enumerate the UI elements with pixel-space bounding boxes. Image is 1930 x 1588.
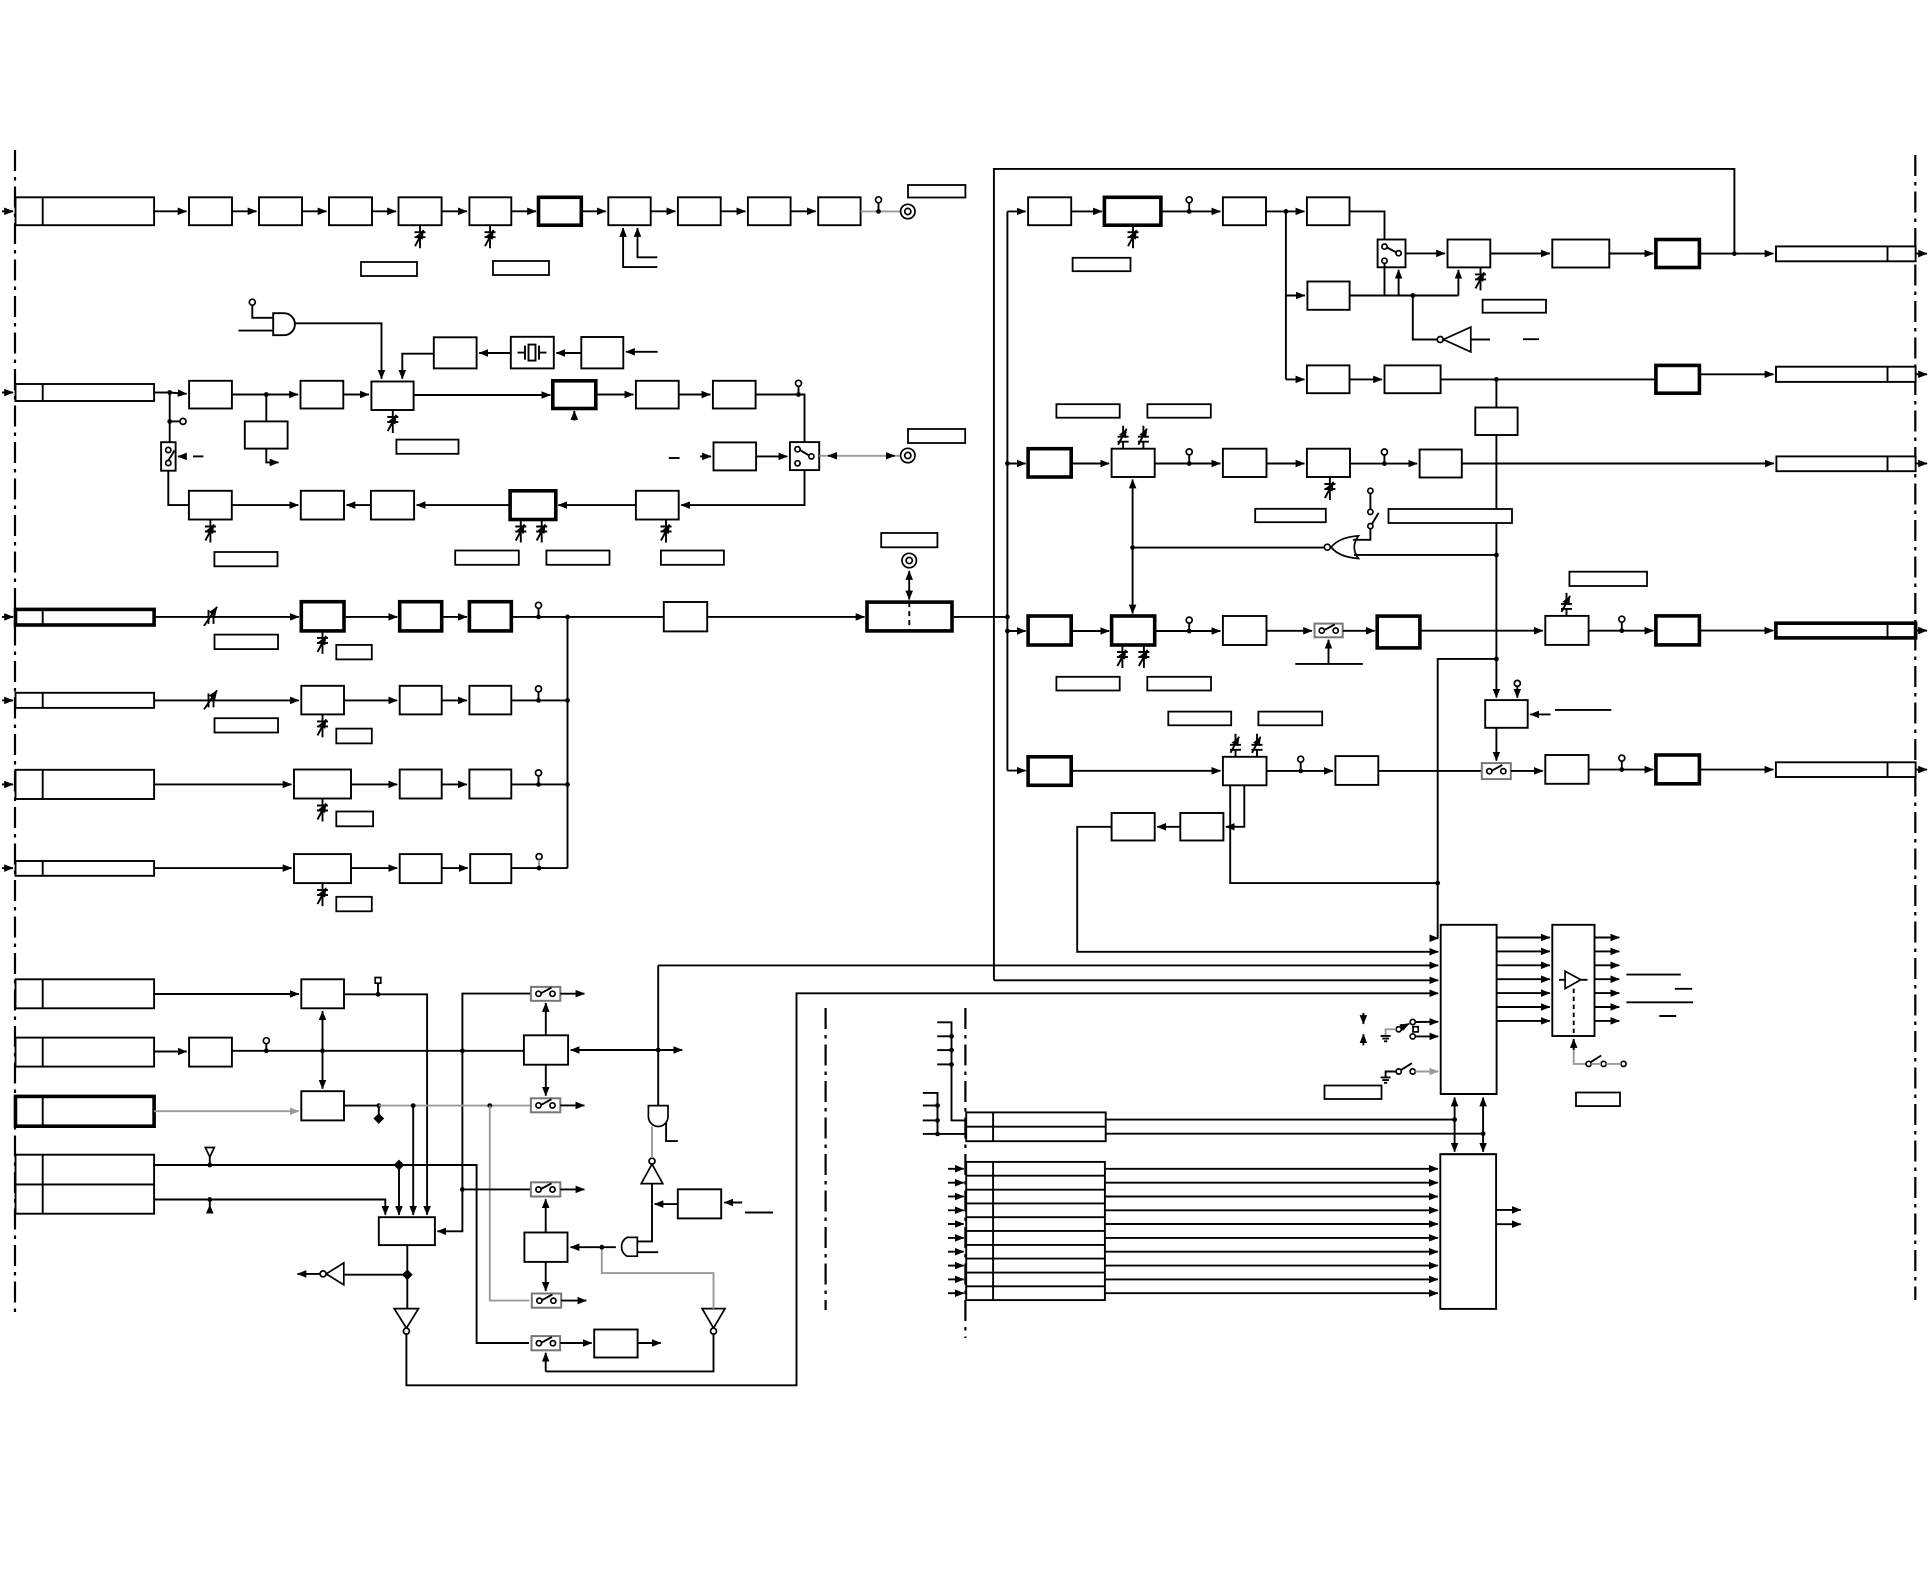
block A1: [301, 979, 344, 1008]
gray vertical to S4: [490, 1106, 530, 1301]
wire: [154, 867, 291, 869]
block r2b-4: [1307, 449, 1350, 477]
input arrow row1: [2, 210, 13, 212]
block fb-4: [510, 491, 556, 520]
key matrix connector 10 rows: [966, 1162, 1105, 1300]
long label: [1389, 509, 1513, 523]
switch SW1: [1378, 240, 1406, 268]
wire: [344, 1105, 379, 1107]
output connector circle: [901, 204, 915, 218]
block r3-1: [1028, 616, 1071, 645]
block row1-2: [189, 197, 232, 225]
trimmer cap below fb-1: [205, 520, 216, 543]
block r1-lower: [1307, 282, 1349, 310]
block r1-7: [1656, 240, 1700, 268]
mute to SW-R4: [1495, 728, 1497, 761]
bus to micon: [994, 979, 1438, 981]
label: [1325, 1086, 1382, 1100]
wire: [154, 993, 299, 995]
block r2b-2: [1112, 449, 1155, 477]
collector junction: [565, 615, 570, 620]
SPDT switch A: [1396, 1027, 1401, 1032]
block r1-6: [1552, 240, 1609, 268]
collector vertical: [567, 617, 569, 868]
wire: [154, 392, 170, 394]
stub arrow up into row1-8 left: [623, 228, 657, 267]
connector CR3: [1776, 456, 1915, 471]
block row5-2: [400, 770, 442, 799]
B1 to S1 arrow: [545, 1003, 547, 1035]
wire: [1350, 378, 1383, 380]
block r4-4: [1545, 755, 1588, 784]
connector J4: [16, 693, 155, 708]
wire: [372, 210, 396, 212]
feedback bus big loop: [994, 169, 1735, 980]
block r3-5: [1545, 616, 1588, 645]
right fold border: [1914, 155, 1916, 1300]
wire: [344, 616, 397, 618]
trimmer below r1-5: [1475, 267, 1486, 290]
out wire: [1350, 295, 1459, 297]
block r3-6: [1656, 616, 1700, 645]
wire to corner: [344, 994, 427, 1215]
main block label: [881, 533, 937, 547]
wire: [1071, 770, 1220, 772]
wire: [351, 783, 397, 785]
driver mode switch: [1573, 1039, 1575, 1050]
block r1-5: [1448, 240, 1491, 268]
test point: [1186, 197, 1192, 203]
adjust marks: [1362, 1013, 1364, 1024]
test point: [1186, 449, 1192, 455]
wire to switch: [756, 395, 805, 443]
SW1 c3 stem: [1384, 263, 1386, 295]
trimmer below: [1324, 477, 1335, 500]
block row3-2: [400, 602, 442, 631]
wire to collector: [511, 867, 567, 869]
wire: [511, 699, 567, 701]
wire: [1609, 253, 1653, 255]
trimmer above: [1561, 593, 1572, 616]
inverter INV2 out to left: [344, 1274, 408, 1276]
wire: [556, 352, 581, 354]
block row1-6: [469, 197, 511, 225]
block row5-1: [294, 770, 351, 799]
AND gate G1: [273, 313, 295, 335]
test point circle: [796, 380, 802, 386]
trimmers below: [1117, 645, 1128, 668]
wire: [347, 504, 371, 506]
junction: [264, 392, 269, 397]
main block jack: [902, 553, 916, 567]
switch S1: [531, 987, 560, 1001]
wire: [343, 394, 369, 396]
wire: [1378, 770, 1482, 772]
block r4-1: [1028, 757, 1071, 786]
wire from circle to AND input: [252, 305, 273, 318]
block row3-3: [469, 602, 511, 631]
switch control arrow: [178, 455, 186, 457]
wire: [1267, 630, 1313, 632]
wire to connector: [1699, 769, 1773, 771]
tap vertical to switch: [169, 393, 171, 443]
control circle: [249, 299, 255, 305]
NOR input top from switch: [1353, 529, 1370, 540]
test point: [536, 602, 542, 608]
block B4: [594, 1330, 637, 1358]
block L1: [1180, 813, 1223, 841]
micon to driver wires: [1497, 937, 1550, 939]
wire: [511, 783, 567, 785]
block row1-5: [399, 197, 442, 225]
input arrow row6: [2, 867, 13, 869]
block row2-sub: [245, 421, 288, 448]
stub diamond: [378, 1106, 380, 1116]
inverter INV1 up: [651, 1184, 653, 1205]
arrow into mon-amp: [700, 455, 711, 457]
connector JB: [16, 1038, 155, 1067]
wire: [442, 616, 467, 618]
wire switch leg down to fb-1: [168, 471, 189, 505]
block row5-3: [469, 770, 511, 799]
B2 to S3 arrow: [545, 1199, 547, 1232]
wire: [1155, 463, 1221, 465]
wire to switch: [1350, 211, 1385, 243]
label top right: [908, 185, 965, 198]
wire mon-amp to switch: [756, 455, 787, 457]
A2 inputs: [637, 1204, 652, 1241]
SW1 out: [1406, 252, 1446, 254]
wire: [558, 504, 636, 506]
wire: [351, 867, 397, 869]
block fb-3: [371, 491, 414, 520]
block r1-2 wide: [1104, 197, 1161, 225]
connector J1: [16, 197, 155, 225]
wire: [1155, 630, 1221, 632]
block r3-2: [1112, 616, 1155, 645]
connector J2: [16, 384, 155, 401]
wire with series trimmer: [154, 699, 299, 701]
connector J3: [16, 609, 155, 625]
wire: [1267, 770, 1333, 772]
stub arrow up into row1-8 right: [638, 228, 658, 257]
switch SW-R3: [1315, 624, 1343, 638]
trimmer cap below row1-6: [485, 225, 496, 248]
inverter INV3 down: [394, 1309, 418, 1329]
throw wires: [1415, 1021, 1438, 1023]
block B-amp: [189, 1038, 232, 1067]
wires to micon link: [1106, 1119, 1455, 1121]
connector JE: [16, 1185, 155, 1214]
wire: [344, 699, 397, 701]
trimmer cap below row1-5: [415, 225, 426, 248]
arrow-up symbol: [209, 1200, 211, 1207]
arrow up into r1-5: [1457, 270, 1459, 296]
row D wire: [154, 1165, 529, 1343]
block row4-1: [301, 686, 344, 715]
block row3-1: [301, 602, 344, 631]
monitor connector circle: [901, 448, 915, 462]
block B3: [678, 1189, 721, 1218]
node to B3: [655, 1203, 678, 1205]
block row1-3: [259, 197, 302, 225]
B1 right input: [571, 1049, 659, 1051]
block r3-4: [1377, 616, 1420, 648]
labels: [1056, 404, 1119, 418]
label: [908, 429, 965, 443]
switch SW-R4: [1482, 763, 1511, 779]
wire to B1: [232, 1050, 524, 1052]
block row1-7: [539, 197, 582, 225]
main block: [867, 602, 952, 631]
wire: [651, 210, 676, 212]
connector J2 divider: [42, 384, 44, 401]
block row1-11: [818, 197, 860, 225]
arrow up into SW1: [1398, 270, 1400, 296]
wire: [1266, 210, 1304, 212]
crystal X1: [511, 337, 554, 369]
block reg: [1475, 408, 1517, 436]
crystal input stub: [626, 351, 658, 353]
wire: [417, 504, 511, 506]
switch SW-L2: [790, 442, 819, 470]
vertical switch: [1368, 488, 1373, 493]
switch S4: [532, 1294, 561, 1308]
key row input arrows: [948, 1168, 964, 1170]
connector J1 divider: [42, 197, 44, 225]
label: [215, 635, 279, 650]
labels: [455, 551, 519, 565]
label: [361, 262, 417, 276]
S5 control from BUF2: [545, 1353, 547, 1372]
block r4-5: [1656, 755, 1700, 784]
block osc-1: [581, 337, 623, 368]
wire: [154, 1051, 187, 1053]
B2 to S4 arrow: [545, 1262, 547, 1291]
block fb-1: [189, 491, 232, 520]
driver outputs: [1595, 937, 1620, 939]
switch S5: [532, 1336, 561, 1350]
NOR output wire: [1133, 547, 1325, 549]
block r3-3: [1223, 616, 1267, 645]
block row2-1: [189, 381, 232, 409]
inner distribution vertical: [1006, 211, 1008, 770]
wire: [442, 867, 468, 869]
block fb-5: [636, 491, 679, 520]
key controller block: [1440, 1154, 1496, 1309]
block row2-4: [553, 381, 596, 409]
test triangle symbol: [209, 1157, 211, 1165]
wire: [442, 699, 467, 701]
long wire A1 top to micon: [658, 964, 1438, 966]
connector JC: [16, 1096, 155, 1126]
loop wire to system micon: [406, 993, 1438, 1385]
controller outputs: [1496, 1209, 1521, 1211]
gray link AND A1 to INV1: [651, 1127, 653, 1159]
labels: [1056, 677, 1119, 691]
bold bottom edge: [1441, 1093, 1497, 1095]
wire: [511, 210, 536, 212]
block mute: [1485, 700, 1528, 728]
connector CR4: [1776, 623, 1916, 638]
wire VCO out: [414, 394, 551, 396]
branch vertical: [1285, 211, 1287, 379]
out: [1511, 770, 1543, 772]
block r2-3: [1656, 365, 1700, 393]
connector CR1: [1776, 246, 1916, 261]
trimmer below: [317, 631, 328, 654]
dash label: [669, 457, 680, 459]
switch S2: [531, 1098, 560, 1112]
wire: [154, 783, 291, 785]
block row6-2: [400, 854, 442, 883]
block L2: [1112, 813, 1155, 841]
wire: [791, 210, 816, 212]
wire to connector: [1699, 253, 1773, 255]
dual row connector: [966, 1112, 1105, 1141]
double arrow jack-block: [908, 571, 910, 578]
block r1-1: [1028, 197, 1071, 225]
wire to connector: [1462, 463, 1774, 465]
label: [1576, 1093, 1620, 1107]
SPST switch B: [1396, 1069, 1401, 1074]
dash label: [193, 455, 203, 457]
AND gate A2: [622, 1237, 638, 1256]
matrix output down: [406, 1245, 408, 1309]
center fold line 1: [824, 1008, 826, 1310]
junction: [796, 392, 801, 397]
connector CR5: [1776, 762, 1916, 777]
junction: [876, 209, 881, 214]
wire out left and down to micon: [1077, 827, 1438, 952]
wire with series trimmer: [154, 616, 299, 618]
buffer symbol inside: [1559, 979, 1565, 981]
wire into main block: [707, 616, 864, 618]
label: [661, 551, 724, 565]
tap circle: [167, 419, 172, 424]
wire to test point: [861, 210, 901, 212]
bidirectional link A1-C1: [322, 1011, 324, 1089]
wire: [1589, 769, 1654, 771]
label: [214, 552, 277, 566]
block row4-2: [400, 686, 442, 715]
branch from r4-2 down: [1226, 785, 1244, 827]
A1 input vertical from top: [657, 965, 659, 1105]
switch SW-L1: [161, 442, 176, 471]
block row2-3 VCO: [371, 382, 413, 411]
wire: [1157, 826, 1180, 828]
block row4-3: [469, 686, 511, 715]
junction: [167, 390, 172, 395]
out: [1343, 630, 1375, 632]
right input: [1530, 713, 1550, 715]
trimmers above: [1230, 734, 1241, 757]
AND gate input 2: [239, 330, 274, 332]
input arrow row5: [2, 783, 13, 785]
trimmer below: [1128, 225, 1139, 248]
gray label: [1073, 258, 1131, 271]
dash label: [1523, 338, 1539, 340]
inverter INV-top feed: [1413, 296, 1437, 340]
block row1-4: [329, 197, 372, 225]
connector JA: [16, 979, 155, 1008]
gray distribution: [379, 1105, 531, 1107]
input arrow row3: [2, 616, 13, 618]
gray wire: [154, 1110, 299, 1112]
block fb-2: [301, 491, 344, 520]
block row1-8: [608, 197, 650, 225]
block mon-amp: [714, 442, 757, 470]
wire to connector: [1699, 373, 1773, 375]
wire: [596, 394, 634, 396]
wire: [442, 210, 467, 212]
block r2-2 wide: [1385, 365, 1441, 393]
micon-controller links: [1454, 1098, 1456, 1120]
wire: [154, 210, 186, 212]
wire: [679, 394, 711, 396]
wire: [1071, 463, 1109, 465]
matrix block: [379, 1217, 435, 1245]
wire: [1490, 253, 1550, 255]
block r4-3: [1335, 756, 1378, 785]
connector J5: [16, 770, 155, 799]
G1 output wire down into VCO: [295, 323, 382, 378]
signal name dashes: [1626, 974, 1680, 976]
wire: [479, 352, 511, 354]
row E wire: [154, 1200, 385, 1215]
control underline + arrow: [1295, 663, 1363, 665]
B1 to S2 arrow: [545, 1065, 547, 1096]
wire: [302, 210, 327, 212]
connector CR2: [1776, 367, 1916, 382]
wire: [1007, 210, 1025, 212]
wire from SW-L2 down: [681, 470, 804, 505]
A1 side input hook: [666, 1123, 678, 1141]
block r1-3: [1223, 197, 1266, 225]
block osc-2: [434, 337, 477, 368]
matrix feed from D: [398, 1165, 400, 1215]
wire: [1589, 630, 1654, 632]
wire: [1350, 463, 1417, 465]
block r2b-5: [1420, 450, 1462, 478]
block row6-1: [294, 854, 351, 883]
S3 feed wire: [462, 1188, 531, 1190]
out arrow: [1916, 253, 1927, 255]
wire: [511, 616, 664, 618]
wire: [232, 210, 257, 212]
key rows to controller: [1105, 1168, 1438, 1170]
block r2b-1: [1028, 449, 1071, 477]
block r4-2: [1223, 757, 1267, 786]
pin square: [375, 978, 381, 984]
wire: [1071, 630, 1109, 632]
block row2-6: [713, 381, 756, 409]
wire fb-1 to fb-2: [232, 504, 298, 506]
labels: [1168, 712, 1231, 726]
wire: [1071, 210, 1102, 212]
stub arrow up into row2-4: [573, 411, 575, 421]
input arrow row2: [2, 392, 13, 394]
osc output wire down into VCO: [402, 354, 434, 379]
stub out of sub block: [266, 449, 278, 463]
buffer BUF2 down: [702, 1309, 725, 1329]
connector J6: [16, 861, 155, 876]
wire to connector: [1699, 630, 1773, 632]
trimmers above: [1118, 426, 1129, 449]
S1 feed wire: [437, 994, 531, 1232]
wire: [442, 783, 467, 785]
center fold line 2: [964, 1008, 966, 1338]
